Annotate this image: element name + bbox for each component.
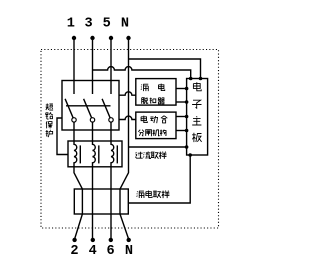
pole 3 wire through trip coil bbox=[111, 122, 114, 239]
moving contact circle pole 1 bbox=[72, 118, 76, 122]
wire contacts to motor mechanism box (hop over N) bbox=[119, 116, 136, 119]
wire N branch to board top bbox=[129, 59, 201, 79]
fixed contact stub 3 bbox=[92, 81, 94, 95]
junction dot board left overcurrent bbox=[185, 145, 189, 149]
label overcurrent sampling bbox=[135, 152, 166, 159]
moving contact circle pole 3 bbox=[109, 118, 113, 122]
label motor mechanism bbox=[138, 116, 167, 136]
svg-text:4: 4 bbox=[89, 244, 97, 259]
wire contacts to leakage-trip box (hop over N) bbox=[119, 92, 136, 95]
junction dot board bottom bbox=[188, 153, 192, 157]
wire pole 5 drop bbox=[110, 38, 112, 81]
terminal dot 1 bbox=[72, 36, 76, 40]
connector mechanism to board a bbox=[176, 116, 187, 118]
connector leakage-trip to board b bbox=[176, 101, 187, 103]
switch blade pole 2 bbox=[84, 99, 92, 118]
short-circuit-protection bracket bbox=[57, 118, 68, 155]
switch blade pole 1 bbox=[65, 99, 73, 118]
svg-text:1: 1 bbox=[67, 17, 75, 32]
overcurrent sampling wire bbox=[129, 146, 187, 148]
switch linkage bar bbox=[66, 105, 111, 107]
fixed contact stub 1 bbox=[73, 81, 75, 95]
pole 2 wire through trip coil bbox=[93, 122, 96, 239]
residual current transformer box bbox=[74, 189, 128, 214]
main contacts box bbox=[62, 81, 119, 131]
trip coil core pole 1 bbox=[79, 145, 81, 163]
label leakage trip unit bbox=[141, 84, 165, 104]
terminal dot 3 bbox=[90, 36, 94, 40]
overcurrent trip coils box bbox=[68, 141, 122, 167]
junction dot board left 1 bbox=[185, 87, 189, 91]
terminal dot 6 bbox=[109, 238, 113, 242]
dashed enclosure border bbox=[41, 50, 219, 229]
svg-text:6: 6 bbox=[107, 244, 115, 259]
svg-text:N: N bbox=[121, 17, 129, 32]
moving contact circle pole 2 bbox=[90, 118, 94, 122]
terminal dot 2 bbox=[72, 238, 76, 242]
leakage trip unit box bbox=[136, 79, 176, 106]
connector mechanism to board b bbox=[176, 130, 187, 132]
junction dot board left 3 bbox=[185, 115, 189, 119]
terminal dot 4 bbox=[91, 238, 95, 242]
leakage sampling wire bbox=[128, 155, 190, 203]
trip coil core pole 2 bbox=[98, 145, 100, 163]
fixed contact stub 5 bbox=[110, 81, 112, 95]
svg-text:N: N bbox=[125, 244, 133, 259]
switch blade pole 3 bbox=[102, 99, 110, 118]
svg-text:2: 2 bbox=[70, 244, 78, 259]
junction dot board top a bbox=[189, 77, 193, 81]
svg-text:3: 3 bbox=[85, 17, 93, 32]
electronic main board box bbox=[187, 79, 208, 156]
junction dot board left 4 bbox=[185, 129, 189, 133]
junction dot board left 2 bbox=[185, 100, 189, 104]
connector leakage-trip to board a bbox=[176, 88, 187, 90]
label electronic main board (vertical) bbox=[192, 82, 202, 142]
terminal dot 5 bbox=[109, 36, 113, 40]
svg-text:5: 5 bbox=[103, 17, 111, 32]
trip coil core pole 3 bbox=[116, 145, 118, 163]
junction dot board top b bbox=[199, 77, 203, 81]
terminal dot N top bbox=[126, 36, 130, 40]
label leakage sampling bbox=[137, 191, 170, 199]
pole 1 wire through trip coil bbox=[74, 122, 82, 239]
terminal dot N bottom bbox=[127, 238, 131, 242]
motor open/close mechanism box bbox=[136, 112, 176, 139]
wire N conductor bbox=[120, 38, 129, 239]
wire pole 3 drop bbox=[92, 38, 94, 81]
wire pole 1 drop bbox=[73, 38, 75, 81]
label short-circuit protection (vertical) bbox=[46, 104, 53, 138]
wire phase branch to board top with hops bbox=[93, 67, 191, 79]
